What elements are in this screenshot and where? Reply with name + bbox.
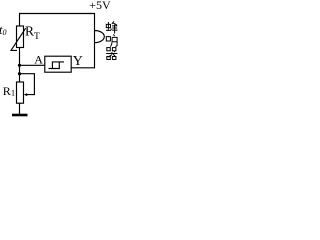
ground bbox=[12, 114, 28, 117]
wiper arrowhead bbox=[24, 93, 28, 96]
wire RT bottom to R1 top bbox=[19, 48, 21, 83]
thermistor strike bbox=[11, 28, 26, 50]
svg-text:Y: Y bbox=[73, 54, 83, 69]
wire R1 bottom to ground bbox=[19, 103, 21, 114]
wire top rail from RT top to +5V corner down to buzzer bbox=[20, 14, 95, 31]
wire wiper tap bbox=[20, 74, 35, 95]
resistor R1 bbox=[17, 82, 24, 103]
svg-text:A: A bbox=[34, 52, 43, 66]
hysteresis symbol bbox=[49, 62, 65, 69]
label buzzer char ming bbox=[106, 34, 117, 46]
op-amp U1 schmitt trigger box bbox=[45, 56, 71, 72]
node junction dot wiper tap bbox=[18, 72, 21, 75]
wire node A horizontal bbox=[20, 64, 45, 66]
svg-text:+5V: +5V bbox=[89, 0, 111, 12]
node junction dot A tap bbox=[18, 64, 21, 67]
resistor RT (thermistor) bbox=[17, 26, 24, 48]
label buzzer char feng bbox=[106, 21, 118, 33]
label buzzer char qi bbox=[106, 48, 117, 60]
wire Y output to buzzer bottom bbox=[71, 43, 94, 68]
buzzer BZ semicircle bbox=[95, 31, 105, 43]
